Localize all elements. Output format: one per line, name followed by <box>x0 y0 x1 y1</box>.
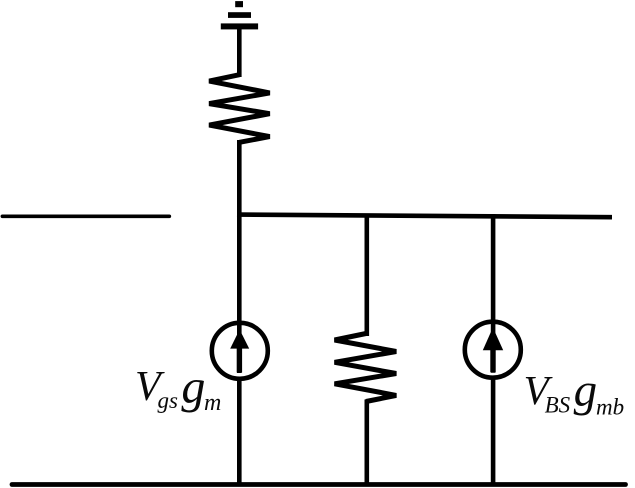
svg-text:m: m <box>204 390 221 416</box>
svg-text:gs: gs <box>158 388 179 413</box>
svg-text:g: g <box>181 361 205 414</box>
svg-text:g: g <box>574 365 598 417</box>
svg-text:BS: BS <box>545 392 571 417</box>
svg-text:mb: mb <box>596 394 624 419</box>
